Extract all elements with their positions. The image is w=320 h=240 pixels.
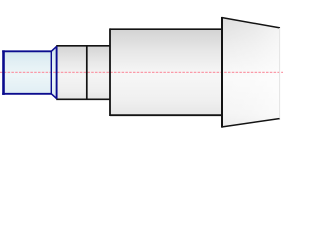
segment B bottom edge [56, 98, 110, 100]
segment C left edge [109, 28, 111, 116]
segment C bottom edge [110, 114, 222, 116]
shaft segment C fill (large cylinder) [110, 30, 222, 116]
segment A chamfer ring line (blue) [50, 51, 52, 94]
shaft segment A fill (selected small cylinder, blue) [3, 47, 57, 99]
cone top slope edge [222, 18, 281, 28]
segment C top edge [110, 28, 222, 30]
segment A top edge (blue) [2, 50, 51, 52]
segment B internal step line [86, 46, 88, 100]
segment A top flare edge (blue) [51, 46, 56, 51]
cone bottom slope edge [222, 119, 281, 128]
shaft segment B fill (middle small cylinder) [57, 46, 110, 100]
centerline (red dashed axis) [0, 71, 283, 73]
segment A bottom edge (blue) [2, 93, 51, 95]
cone highlight fade overlay [222, 18, 280, 128]
cone left face edge [221, 17, 223, 128]
segment A left face edge (blue) [2, 50, 5, 95]
segment B top edge [56, 45, 110, 47]
cone right face edge (faint) [279, 28, 281, 119]
segment A end face edge (blue) [56, 46, 58, 99]
segment A bottom flare edge (blue) [51, 94, 56, 99]
cone segment fill (tapered end) [222, 18, 280, 128]
